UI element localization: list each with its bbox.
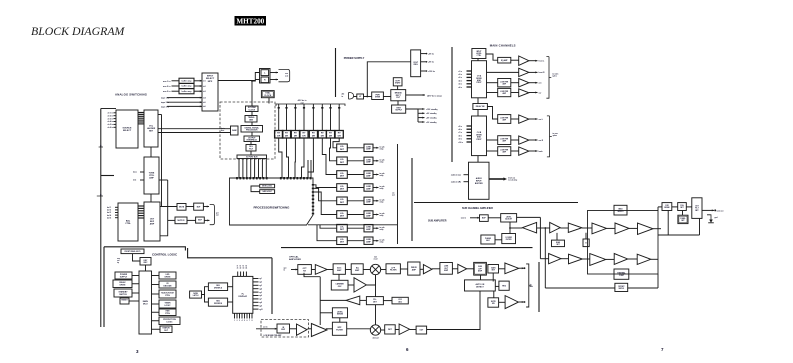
svg-text:MUTE LOGIC: MUTE LOGIC: [262, 186, 273, 188]
sub auto-on box: [465, 280, 496, 291]
wire subtri1 to subtri2: [560, 227, 568, 229]
section divider left of power supply: [335, 48, 337, 97]
processor top pin right group 5: [293, 177, 295, 179]
processor top pin right group 6: [296, 177, 298, 179]
svg-text:DRIVER A: DRIVER A: [214, 286, 223, 289]
wire eqB3 to triB3: [511, 150, 519, 152]
wire pre2 to bpf: [326, 328, 333, 330]
balance pin wire 4: [115, 214, 118, 216]
svg-text:MAIN CHANNELS: MAIN CHANNELS: [490, 44, 516, 48]
wire optical bottom to sub autoon: [427, 291, 480, 330]
bus tick select-ladder 7: [138, 123, 144, 125]
balance pin wire 1: [115, 206, 118, 208]
svg-text:DET: DET: [340, 216, 345, 218]
audio input buffer box: [469, 162, 490, 199]
svg-text:f2: f2: [240, 266, 241, 268]
balance pin wire 5: [115, 217, 118, 219]
wire tone to output buffer: [150, 194, 152, 202]
driver box row 6: [364, 211, 373, 218]
display bottom pin 1: [234, 313, 236, 318]
bus tick select-ladder 6: [138, 121, 144, 123]
key encoder box: [140, 258, 151, 266]
wire feed to bottom row: [540, 258, 548, 260]
svg-text:LOW PWR: LOW PWR: [500, 81, 509, 83]
power amp triangle A1: [519, 56, 529, 65]
svg-text:s3 in: s3 in: [458, 77, 462, 79]
svg-text:DR: DR: [302, 135, 306, 137]
control right box timer logic: [159, 300, 176, 308]
wire processor pin to det row 5: [314, 188, 337, 200]
processor top pin left group 7: [256, 177, 258, 179]
svg-text:COMP: COMP: [619, 275, 625, 277]
svg-text:START: START: [395, 81, 401, 84]
svg-text:sg5: sg5: [259, 292, 262, 294]
display right pin 6: [253, 295, 259, 297]
processor right pin 7: [312, 206, 314, 208]
control right box status out: [160, 326, 172, 333]
wire det to driver row 7: [347, 227, 364, 229]
svg-text:sg1: sg1: [259, 278, 262, 280]
wire rail to relay 1: [278, 104, 280, 131]
bottom out triangle: [399, 324, 410, 335]
wire inbuf to pre1: [290, 328, 297, 330]
svg-text:ant in: ant in: [263, 325, 268, 328]
power amp triangle A4: [519, 89, 529, 97]
wire rect corner up: [657, 207, 659, 211]
svg-text:AMP: AMP: [355, 269, 360, 272]
dsp box interface: [244, 136, 260, 142]
optical driver box: [408, 262, 420, 275]
svg-text:sub in: sub in: [461, 218, 466, 220]
svg-text:AMP: AMP: [366, 228, 371, 231]
speaker wire A2: [529, 71, 538, 73]
wire processor to det row 7: [320, 225, 337, 228]
processor right pin 4: [312, 195, 314, 197]
power amp triangle A2: [519, 68, 529, 76]
offset servo box: [615, 283, 628, 291]
regulator output dot 2: [426, 61, 428, 63]
wire eqB2 to triB2: [511, 139, 519, 141]
svg-text:ch 4 in: ch 4 in: [108, 120, 114, 123]
svg-text:SERVO: SERVO: [618, 211, 625, 213]
optical lpf box: [386, 264, 400, 274]
svg-text:DR: DR: [285, 135, 289, 137]
svg-text:out: out: [392, 194, 395, 197]
wire clock to timing: [251, 112, 253, 116]
svg-text:SW: SW: [492, 303, 495, 305]
processor right pin 9: [312, 213, 314, 215]
analog box tone control U4: [144, 157, 159, 194]
svg-text:s5 in: s5 in: [458, 84, 462, 86]
svg-text:bal 4: bal 4: [107, 214, 111, 217]
svg-text:AMP: AMP: [366, 241, 371, 244]
wire driverB to inputbuffer: [477, 156, 479, 163]
wire driver out row 2: [373, 160, 379, 162]
svg-text:DR: DR: [312, 135, 316, 137]
svg-text:CONTROL LOGIC: CONTROL LOGIC: [152, 253, 178, 257]
wire timing to core: [251, 122, 253, 126]
bus tick bal-buf 3: [138, 210, 144, 212]
wire analog to ram upper: [158, 128, 231, 130]
wire buffer3 to adc: [194, 90, 202, 92]
svg-text:in3: in3: [203, 91, 205, 93]
svg-text:LOW PWR: LOW PWR: [500, 150, 509, 152]
detector box row 5: [337, 197, 348, 205]
svg-text:cen: cen: [539, 83, 542, 85]
svg-text:f1: f1: [237, 266, 238, 268]
rec out jack bracket: [279, 69, 290, 81]
tone ctrl label a: [133, 172, 137, 174]
junction regulator feed: [366, 96, 368, 98]
sub out arrow top: [519, 267, 524, 269]
power amp triangle B2: [519, 136, 529, 144]
processor top pin left group 8: [259, 177, 261, 179]
optical vco box: [392, 297, 408, 304]
wire det to driver row 2: [347, 160, 364, 162]
wire mixer1 down to pll: [375, 275, 377, 297]
driver B pin wire 6: [467, 141, 472, 143]
wire eqA1 to triA1: [511, 59, 519, 61]
svg-text:DET: DET: [340, 176, 345, 178]
display right pin 4: [253, 288, 259, 290]
wire driverA to eqA3: [487, 82, 498, 84]
wire eqB1 to triB1: [511, 118, 519, 120]
svg-text:CTRL: CTRL: [165, 295, 171, 297]
wire volctrl to eqA: [486, 54, 498, 60]
svg-text:sg6: sg6: [259, 295, 262, 297]
dsp output port bar: [237, 155, 267, 159]
detector box row 2: [337, 157, 348, 165]
wire det to outtri: [395, 329, 399, 331]
svg-text:ANALOG SWITCHING: ANALOG SWITCHING: [115, 93, 147, 97]
bus tick bal-buf 2: [138, 207, 144, 209]
svg-text:NET: NET: [681, 220, 684, 222]
crystal box inner border: [262, 92, 273, 97]
processor top pin right group 2: [283, 177, 285, 179]
output stage triangle top 2: [615, 223, 629, 234]
processor top pin left group 9: [263, 177, 265, 179]
optical osc box: [331, 280, 348, 290]
wire sense to coil: [672, 206, 678, 208]
wire relay 5 to switch matrix: [308, 138, 313, 178]
svg-text:tape 1 in: tape 1 in: [161, 97, 170, 100]
svg-text:DET: DET: [340, 202, 345, 204]
svg-text:out: out: [285, 75, 288, 78]
svg-text:DET: DET: [340, 229, 345, 231]
detector bracket label: [392, 193, 395, 197]
wire dsp bus bit 1 down: [242, 159, 244, 179]
wire relay 1 to switch matrix: [279, 138, 282, 178]
driver out label row 2: [380, 159, 385, 164]
analog box source select U2: [116, 110, 138, 148]
svg-text:back: back: [539, 151, 543, 153]
display right pin 9: [253, 305, 259, 307]
output ground symbol: [707, 215, 714, 223]
wire rail to relay 8: [338, 104, 340, 131]
svg-text:±47V dc to amps: ±47V dc to amps: [427, 94, 442, 97]
wire subbuf to level: [488, 217, 501, 219]
svg-text:RY: RY: [321, 133, 324, 135]
wire processor to det row 8: [317, 225, 337, 241]
optical section top border: [281, 247, 533, 249]
wire rail to relay 5: [312, 104, 314, 131]
svg-text:sg3: sg3: [259, 285, 262, 287]
standby rail stub 3: [418, 117, 425, 119]
svg-text:DRIVE: DRIVE: [120, 285, 127, 287]
svg-text:+9V standby: +9V standby: [426, 112, 437, 115]
svg-text:ch 5 in: ch 5 in: [108, 124, 114, 126]
display bottom pin 3: [239, 313, 241, 318]
svg-text:RESET: RESET: [121, 299, 128, 301]
svg-text:s6 in: s6 in: [458, 87, 462, 89]
svg-text:AMP: AMP: [366, 161, 371, 164]
output filter box: [692, 198, 702, 219]
control logic left border: [103, 247, 105, 327]
sub gain triangle 1: [550, 222, 561, 233]
svg-text:LOGIC: LOGIC: [165, 305, 172, 307]
main channel driver A: [472, 61, 487, 98]
display top pin 3: [243, 272, 245, 277]
wire rx to preamp: [311, 269, 315, 271]
front panel keys box: [121, 249, 144, 254]
svg-text:NET: NET: [680, 207, 683, 209]
sub vertical feed a: [539, 217, 541, 258]
svg-text:gnd: gnd: [714, 217, 717, 219]
display top pin 1: [237, 272, 239, 277]
svg-text:relay: relay: [380, 229, 384, 231]
wire mcu to protection logic: [152, 320, 160, 322]
wire eq to mixer1: [363, 269, 370, 271]
balance pin wire 2: [115, 209, 118, 211]
svg-text:buffer amp: buffer amp: [182, 86, 193, 88]
dashed dsp region: [220, 102, 275, 159]
driver A pin wire 6: [467, 86, 472, 88]
mixer2 label: [373, 338, 379, 340]
svg-text:MCU: MCU: [143, 303, 148, 305]
svg-text:DISPLAY: DISPLAY: [239, 295, 248, 298]
detector group bracket: [397, 144, 399, 244]
svg-text:+12V standby: +12V standby: [426, 108, 438, 111]
svg-text:AMP: AMP: [366, 174, 371, 177]
display bottom pin 2: [236, 313, 238, 318]
display top pin label 3: [243, 266, 245, 270]
driver out label row 1: [380, 146, 385, 151]
wire dsp bus bit 0 down: [238, 159, 240, 179]
display bottom pin 6: [246, 313, 248, 318]
svg-text:sur R: sur R: [539, 140, 544, 142]
bridge rectifier box: [391, 90, 406, 101]
zobel box: [678, 215, 688, 223]
section divider between power supply and main channels: [451, 47, 453, 162]
display data latch: [190, 291, 202, 298]
wire rectifier main out: [406, 94, 425, 96]
speaker wire B3: [529, 150, 538, 152]
svg-text:MHT200: MHT200: [236, 17, 264, 25]
regulator output stub 2: [421, 61, 426, 63]
processor right pin 1: [312, 184, 314, 186]
svg-text:+5V dc: +5V dc: [428, 53, 434, 55]
svg-text:AMP: AMP: [412, 268, 417, 271]
standby rail stub 1: [418, 108, 425, 110]
channel relay box: [473, 104, 488, 110]
sub drive triangle: [458, 264, 467, 273]
svg-text:spkrs: spkrs: [553, 135, 558, 137]
line buffer R: [196, 217, 205, 223]
svg-text:FILTER: FILTER: [336, 330, 343, 332]
display top pin label 4: [245, 265, 247, 270]
wire subtri2 to rect: [582, 227, 592, 229]
sub bias box: [552, 240, 565, 247]
wire rec R to jack: [271, 79, 279, 81]
svg-text:aux 1 in: aux 1 in: [163, 81, 171, 83]
svg-text:mod: mod: [374, 259, 378, 261]
control right box ir decode: [159, 281, 176, 288]
svg-text:DET: DET: [340, 242, 345, 244]
svg-text:bus: bus: [221, 130, 224, 132]
wire driverA to relay: [477, 98, 479, 104]
detector box row 4: [337, 184, 348, 192]
speaker wire B1: [529, 118, 538, 120]
svg-text:POWER SUPPLY: POWER SUPPLY: [344, 56, 365, 60]
display right pin 8: [253, 301, 259, 303]
bus tick select-ladder 1: [138, 112, 144, 114]
wire dsp bus bit 2 down: [246, 159, 248, 179]
svg-text:DR: DR: [321, 135, 325, 137]
optical pll box: [366, 297, 383, 305]
input wire row 2: [172, 85, 180, 87]
sub speaker wire: [702, 209, 714, 211]
svg-text:ADJ: ADJ: [486, 239, 489, 242]
svg-text:ADJ: ADJ: [398, 300, 402, 303]
wire obot out: [651, 258, 658, 260]
wire afc to sense: [320, 312, 332, 314]
processor right pin 5: [312, 198, 314, 200]
wire processor pin to det row 4: [314, 185, 337, 188]
wire linebox to subtri: [452, 268, 457, 270]
wire driver out row 5: [373, 200, 379, 202]
svg-text:SENSE: SENSE: [337, 314, 344, 316]
svg-text:f3: f3: [243, 266, 244, 268]
wire latch fork up: [202, 287, 209, 295]
preamp input box: [277, 324, 290, 333]
wire rx monitor drop: [304, 273, 320, 277]
output stage triangle bottom 3: [614, 254, 628, 265]
detector box row 6: [337, 211, 348, 219]
sub output label: [530, 283, 533, 288]
speaker group bracket B: [547, 116, 552, 157]
svg-text:audio in (L): audio in (L): [451, 175, 461, 177]
dsp box filter: [246, 145, 256, 152]
driver box row 4: [364, 184, 373, 191]
wire buffer1 to adc: [194, 80, 202, 82]
wire det to driver row 8: [347, 240, 364, 242]
svg-text:SWITCH: SWITCH: [119, 294, 127, 296]
processor internal register A: [260, 184, 275, 188]
feedback line lower right: [628, 287, 658, 289]
wire subgain down to trig: [492, 273, 494, 282]
wire rail to relay 7: [330, 104, 332, 131]
svg-text:INTERFACE: INTERFACE: [247, 138, 258, 141]
wire det to driver row 1: [347, 147, 364, 149]
wire driver out row 1: [373, 147, 379, 149]
wire det to driver row 6: [347, 214, 364, 216]
display right pin 1: [253, 278, 259, 280]
input wire row 5: [167, 101, 202, 103]
wire rec buffer lower stub: [255, 79, 259, 81]
driver out label row 4: [380, 185, 385, 190]
driver A pin wire 1: [467, 70, 472, 72]
svg-text:AMP: AMP: [366, 201, 371, 204]
feedback wire vertical right: [699, 218, 701, 235]
dsp box timing gen: [245, 116, 257, 123]
svg-text:SERVO: SERVO: [619, 288, 625, 290]
svg-text:PROCESSOR: PROCESSOR: [246, 129, 258, 131]
control right box led drive: [159, 272, 176, 279]
svg-text:aux 2 in: aux 2 in: [163, 86, 171, 88]
svg-text:+6V standby: +6V standby: [426, 116, 437, 119]
input wire row 3: [172, 90, 180, 92]
bus tick bal-buf 4: [138, 212, 144, 214]
svg-text:sub out: sub out: [717, 209, 724, 212]
wire buf R to preout: [204, 219, 209, 221]
source select pin wire 3: [114, 118, 117, 120]
wire det to driver row 4: [347, 187, 364, 189]
sub sense box E: [583, 239, 589, 247]
sub gain box: [488, 265, 499, 274]
sub out dot bottom: [524, 301, 526, 303]
display right pin 5: [253, 291, 259, 293]
sub feedback triangle: [522, 222, 536, 233]
driver A pin wire 3: [467, 76, 472, 78]
processor top pin right group 3: [287, 177, 289, 179]
processor right pin 3: [312, 191, 314, 193]
wire rec L to jack: [271, 72, 279, 74]
svg-text:audio in (R): audio in (R): [451, 182, 461, 184]
AC in label: [342, 93, 345, 98]
svg-text:ZOBEL: ZOBEL: [680, 218, 685, 220]
svg-text:A: A: [100, 193, 102, 196]
output stage triangle bottom 2: [590, 254, 606, 266]
wire rectifier to standby: [397, 101, 399, 105]
wire volctrl to driverA: [477, 59, 479, 61]
wire latch fork down: [205, 295, 209, 303]
wire mute L to buf L: [186, 206, 194, 208]
relay driver box 4: [300, 131, 308, 139]
bottom out box: [416, 326, 427, 334]
driver box row 3: [364, 171, 373, 178]
bus bracket label: [298, 99, 308, 104]
driver out label row 5: [380, 199, 385, 204]
control left box standby switch: [114, 289, 132, 297]
wire driverA to eqA4: [487, 92, 498, 94]
regulator output stub 1: [421, 53, 426, 55]
wire core to interface: [251, 132, 253, 136]
bottom det box: [385, 325, 396, 334]
wire osc to buffer: [348, 284, 354, 286]
wire crystal to dsp block: [268, 98, 270, 104]
sub input wire: [470, 217, 480, 219]
optical input label: [284, 266, 287, 271]
speaker wire A3: [529, 82, 538, 84]
wire det to driver row 5: [347, 200, 364, 202]
wire obot 2-3: [606, 258, 615, 260]
wire pll to afc: [360, 299, 367, 301]
wire rail to relay 4: [303, 104, 305, 131]
section divider right of switching: [411, 158, 413, 241]
detector box row 3: [337, 171, 348, 179]
display bottom pin 8: [251, 313, 253, 318]
relay driver box 8: [335, 131, 343, 139]
